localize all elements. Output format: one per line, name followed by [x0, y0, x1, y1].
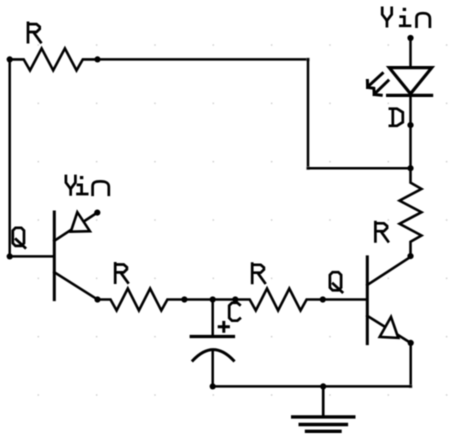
node — [320, 383, 326, 389]
resistor R2 — [98, 289, 185, 311]
transistor Q2 collector — [367, 257, 410, 285]
wire — [184, 298, 235, 301]
node Vin — [94, 210, 100, 216]
label Vin — [382, 8, 430, 27]
wire — [307, 59, 310, 168]
capacitor C bottom plate — [193, 350, 234, 361]
LED arrows — [367, 73, 388, 95]
wire — [323, 298, 366, 301]
node — [94, 296, 100, 302]
ground — [293, 386, 354, 431]
node — [94, 56, 100, 62]
node — [7, 253, 13, 259]
node — [408, 340, 414, 346]
resistor R1 — [10, 48, 98, 70]
node — [210, 296, 216, 302]
transistor Q2 emitter arrow — [380, 317, 399, 338]
wire — [409, 385, 412, 388]
transistor Q2 base bar — [366, 257, 369, 344]
capacitor C bottom lead — [211, 350, 214, 386]
LED D — [388, 68, 432, 96]
transistor Q1 base bar — [53, 212, 56, 300]
node — [181, 296, 187, 302]
wire — [98, 58, 309, 61]
resistor R4 — [400, 168, 422, 256]
node — [7, 56, 13, 62]
node — [407, 122, 413, 128]
resistor R3 — [235, 289, 322, 311]
capacitor C top plate — [191, 335, 233, 338]
label R2 — [115, 263, 128, 282]
label Vin — [66, 176, 109, 195]
label D — [390, 109, 403, 126]
node — [407, 253, 413, 259]
node — [320, 296, 326, 302]
transistor Q2 emitter — [367, 316, 410, 343]
transistor Q1 base wire — [10, 255, 53, 258]
wire — [409, 38, 412, 67]
capacitor C top lead — [211, 300, 214, 337]
node Vin — [407, 35, 413, 41]
label C — [229, 303, 240, 321]
label R1 — [28, 23, 41, 42]
node — [232, 296, 238, 302]
node — [210, 383, 216, 389]
label Q2 — [330, 272, 342, 292]
node — [407, 165, 413, 171]
wire — [409, 95, 412, 168]
label Q1 — [13, 228, 25, 248]
transistor Q1 emitter — [54, 213, 97, 241]
wire — [306, 58, 309, 61]
label R3 — [252, 264, 265, 283]
wire — [308, 167, 411, 170]
label + polarity — [219, 322, 228, 331]
wire — [213, 385, 411, 388]
transistor Q1 collector — [54, 272, 97, 299]
wire — [8, 59, 11, 256]
wire — [409, 343, 412, 387]
label R4 — [375, 222, 388, 241]
transistor Q1 emitter arrow — [71, 212, 90, 232]
wire — [306, 167, 309, 170]
